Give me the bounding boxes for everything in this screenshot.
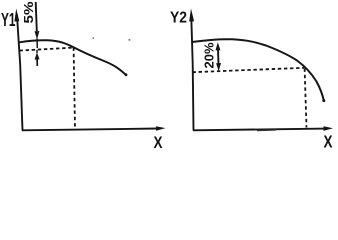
svg-text:X: X	[154, 134, 163, 150]
right graph: Y2 vs X	[191, 14, 326, 131]
left curve end blob	[125, 73, 128, 76]
X axis arrowhead	[156, 126, 166, 131]
5% dimension upper arrow shaft	[36, 2, 37, 31]
svg-text:20%: 20%	[203, 43, 217, 69]
svg-text:Y1: Y1	[1, 9, 15, 30]
curve Y1(X)	[20, 40, 127, 75]
Y1 axis arrowhead	[14, 9, 19, 22]
Y1 axis (vertical)	[17, 14, 23, 131]
dashed horizontal at 5%-down level	[20, 48, 74, 51]
20% dimension arrow shaft	[217, 48, 220, 65]
speck artifact 2	[129, 39, 131, 40]
svg-text:Y2: Y2	[170, 10, 187, 27]
right curve end blob	[322, 99, 325, 102]
dashed horizontal at 20%-down level	[193, 68, 305, 72]
up arrowhead to curve (20%)	[216, 42, 221, 50]
up arrowhead to dashed line (5%)	[35, 52, 40, 59]
speck artifact 1	[93, 38, 95, 39]
Y2 axis arrowhead	[189, 9, 194, 22]
axis overdraw artifact	[257, 129, 276, 132]
down arrowhead to curve (5%)	[35, 31, 40, 40]
svg-text:5%: 5%	[22, 2, 36, 24]
svg-text:X: X	[324, 132, 333, 151]
X axis (horizontal)	[22, 129, 158, 131]
down arrowhead to dashed (20%)	[216, 63, 221, 71]
5% dimension lower arrow link to dashed line	[36, 50, 38, 53]
dashed vertical to X axis	[74, 48, 75, 129]
left graph: Y1 vs X	[17, 2, 158, 131]
5% dimension lower arrow tail	[36, 59, 38, 66]
Y2 axis (vertical)	[191, 14, 193, 131]
5% dimension extension through curve	[36, 39, 38, 49]
curve Y2(X)	[192, 39, 324, 100]
X axis (horizontal)	[193, 129, 326, 131]
dashed vertical to X axis	[305, 69, 307, 128]
X axis arrowhead (right)	[324, 126, 334, 131]
